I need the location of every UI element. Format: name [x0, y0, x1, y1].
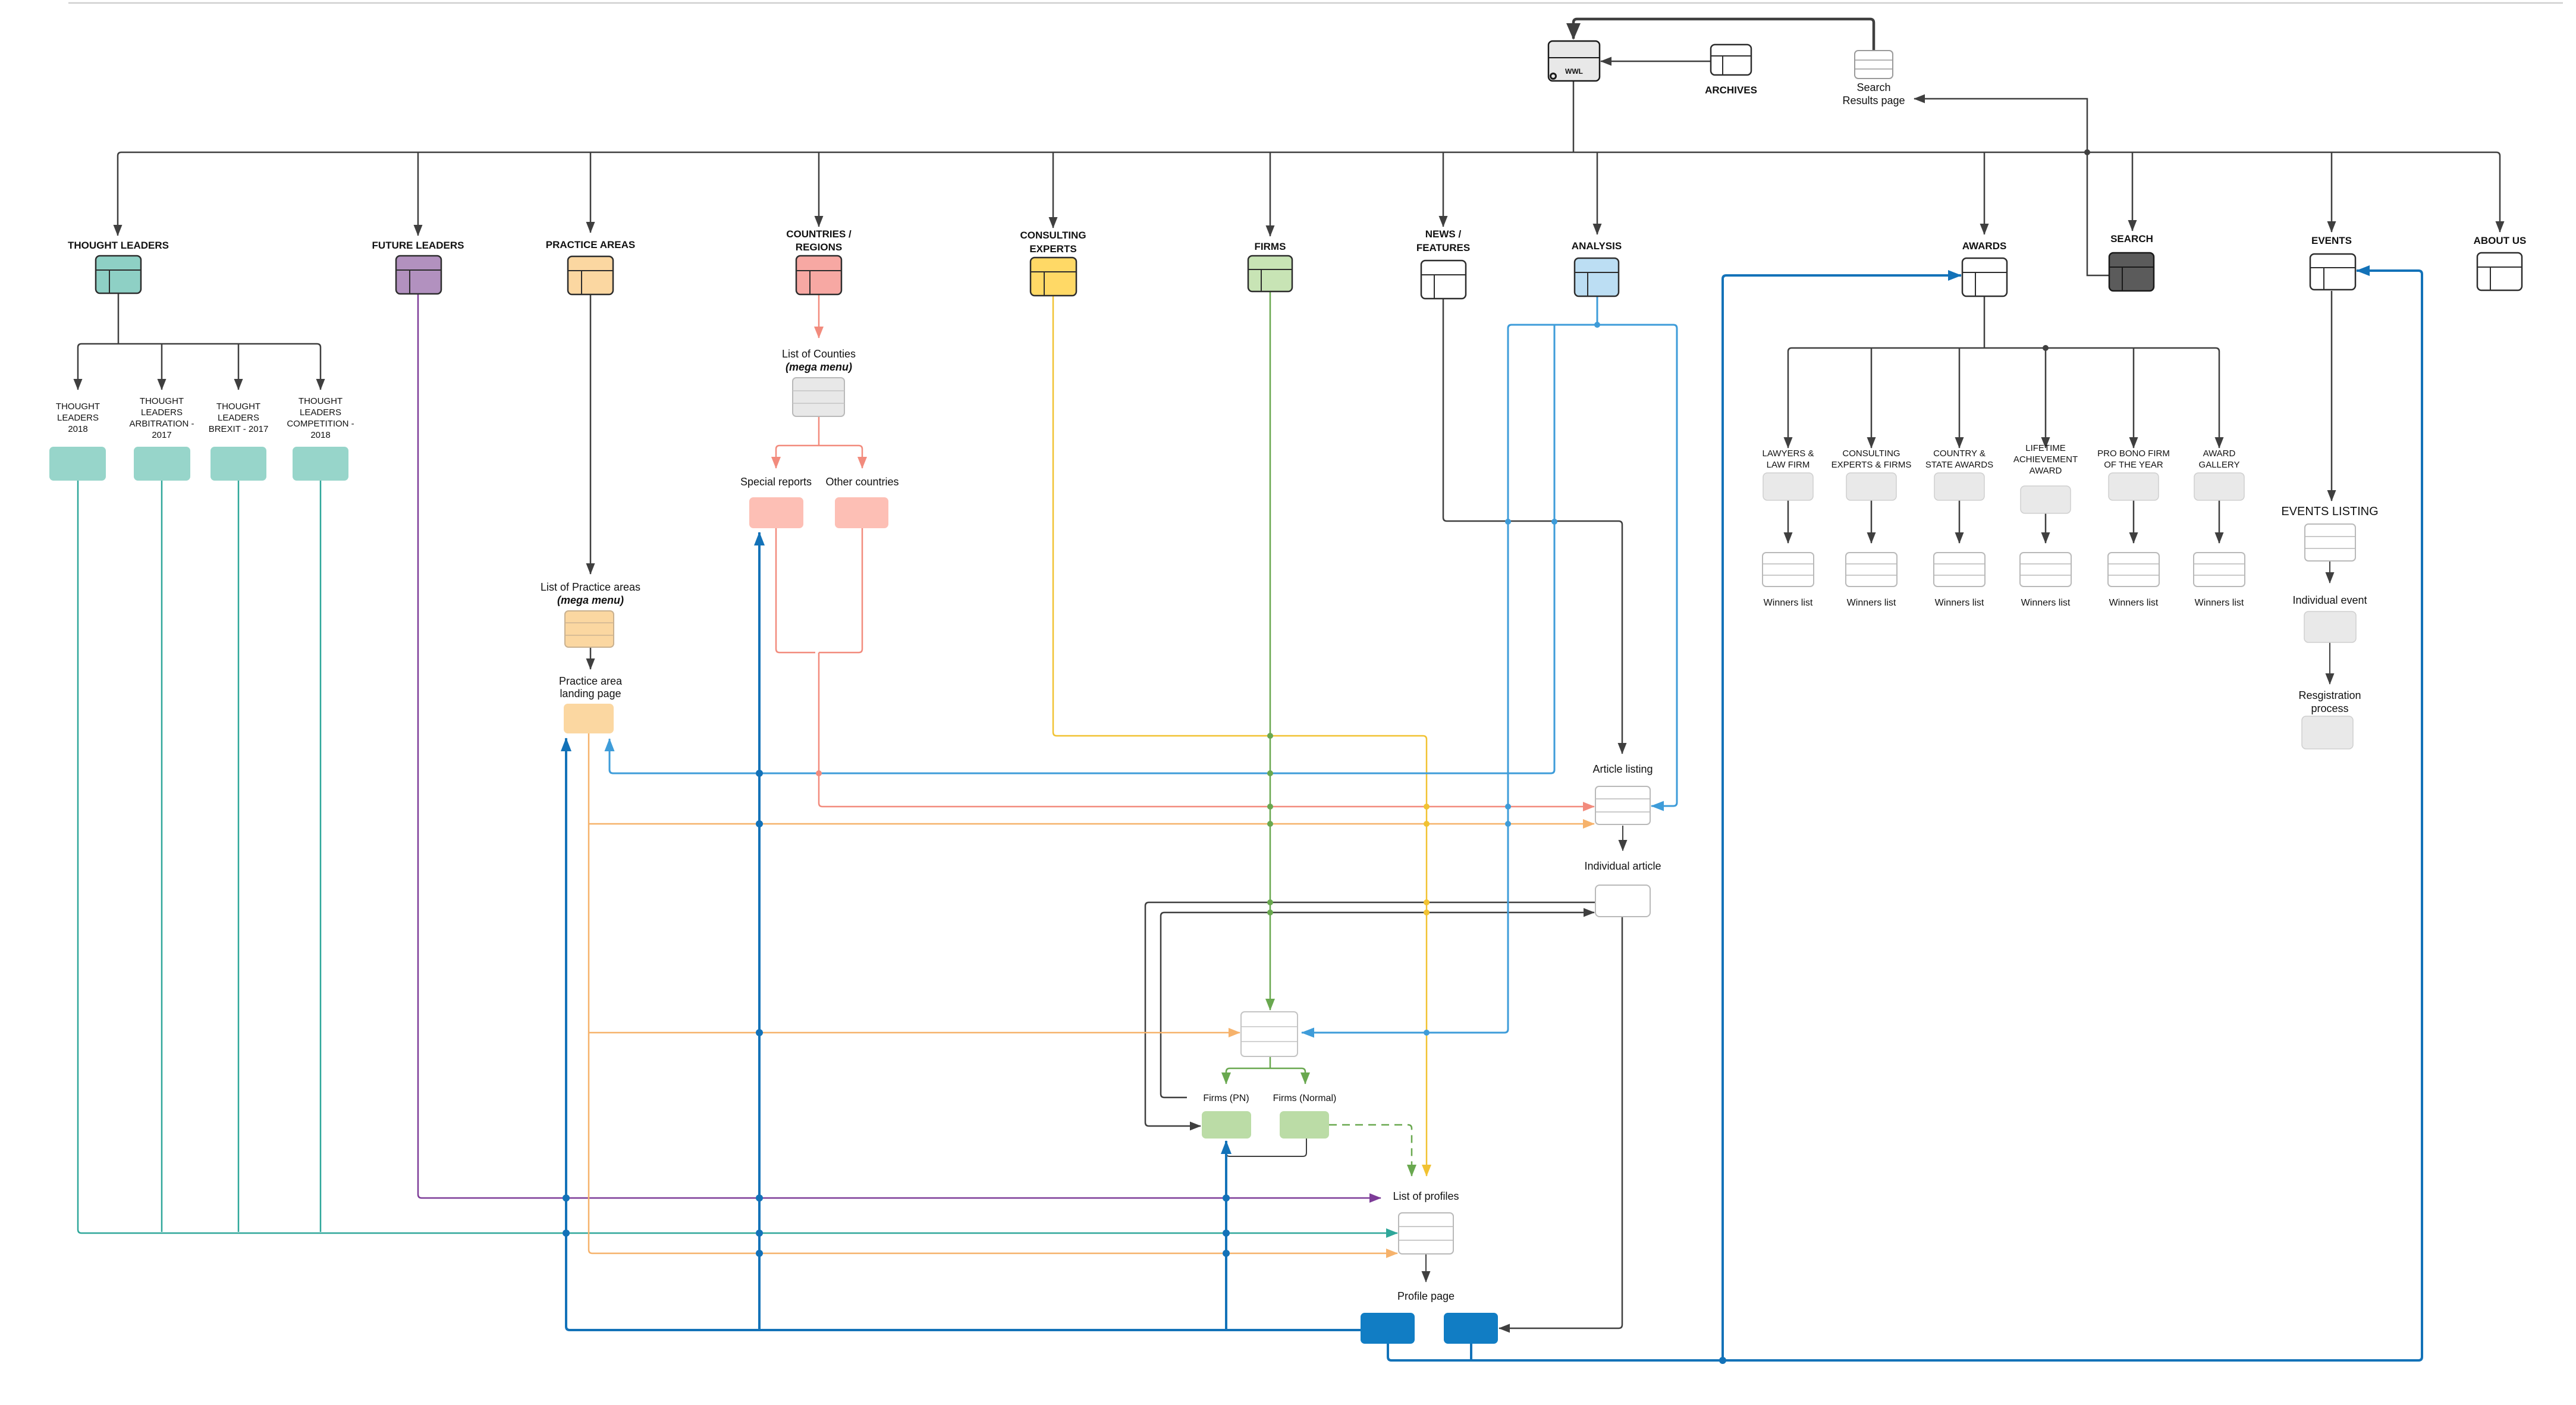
- wire winners arrow 4: [2219, 500, 2220, 543]
- svg-text:EXPERTS & FIRMS: EXPERTS & FIRMS: [1832, 460, 1912, 470]
- node registration box: [2302, 716, 2353, 749]
- wire TL drop 2018: [78, 344, 81, 390]
- wire arrow ANALYSIS: [1597, 152, 1598, 234]
- svg-text:WWL: WWL: [1565, 67, 1583, 76]
- wire trunk corner left + arrow THOUGHT LEADERS: [118, 152, 121, 236]
- node ARCHIVES box: [1711, 45, 1751, 75]
- node award grey box 3: [2109, 473, 2159, 500]
- svg-text:EVENTS LISTING: EVENTS LISTING: [2281, 505, 2378, 518]
- svg-text:EVENTS: EVENTS: [2311, 235, 2352, 246]
- wire winners arrow 0: [1788, 500, 1789, 543]
- svg-text:2018: 2018: [68, 424, 87, 434]
- junction dot purple x dblue3: [563, 1194, 570, 1202]
- node firms normal box: [1280, 1111, 1329, 1139]
- svg-text:2017: 2017: [152, 430, 171, 440]
- wire orange branch article listing: [589, 823, 1594, 825]
- svg-text:Winners list: Winners list: [1935, 598, 1984, 608]
- svg-text:LAWYERS &: LAWYERS &: [1763, 449, 1814, 459]
- svg-text:COUNTRIES /: COUNTRIES /: [786, 228, 852, 240]
- wire winners arrow 2: [1959, 500, 1961, 543]
- node other countries box: [835, 497, 888, 528]
- svg-text:List of profiles: List of profiles: [1393, 1190, 1459, 1202]
- svg-text:Article listing: Article listing: [1592, 763, 1653, 775]
- node award grey box 0: [1763, 473, 1813, 500]
- svg-text:FIRMS: FIRMS: [1255, 241, 1286, 252]
- node lifetime award grey box: [2021, 486, 2071, 513]
- node winners list box 2: [1934, 553, 1985, 587]
- wire TL drop competition: [317, 344, 321, 390]
- svg-text:Other countries: Other countries: [825, 476, 899, 488]
- svg-text:THOUGHT: THOUGHT: [216, 402, 260, 412]
- wire arrow EVENTS: [2331, 152, 2333, 232]
- junction dot teal x dblue2: [756, 1230, 763, 1237]
- node AWARDS box: [1962, 258, 2007, 296]
- node award grey box 4: [2194, 473, 2244, 500]
- wire arrow PRACTICE AREAS: [590, 152, 592, 233]
- wire practice areas to mega menu: [590, 294, 592, 574]
- svg-text:(mega menu): (mega menu): [786, 361, 852, 373]
- junction dot lblue x green: [1267, 770, 1273, 776]
- junction dot purple x dblue: [1223, 1194, 1230, 1202]
- wire awards drop lawyers: [1788, 348, 1792, 448]
- wire yellow consulting: [1053, 295, 1427, 1176]
- svg-text:landing page: landing page: [560, 688, 621, 700]
- node practice landing box: [564, 704, 614, 733]
- wire SEARCH to search-results: [1914, 99, 2109, 275]
- svg-text:LEADERS: LEADERS: [218, 413, 259, 423]
- svg-text:LIFETIME: LIFETIME: [2025, 443, 2066, 453]
- svg-text:Winners list: Winners list: [2195, 598, 2244, 608]
- wire salmon to article listing: [819, 653, 1594, 807]
- svg-text:Practice area: Practice area: [559, 675, 623, 687]
- wire dblue profile right stem: [1470, 1344, 1472, 1360]
- svg-text:FUTURE LEADERS: FUTURE LEADERS: [372, 240, 464, 251]
- wire dblue branch to AWARDS: [1723, 275, 1961, 1360]
- node practice mega menu box: [565, 611, 614, 647]
- svg-text:List of Practice areas: List of Practice areas: [541, 581, 640, 593]
- junction dot black1534 x yellow: [1424, 910, 1430, 915]
- wire arrow CONSULTING EXPERTS: [1053, 152, 1054, 228]
- svg-text:CONSULTING: CONSULTING: [1020, 230, 1086, 241]
- junction dot orange x yellow: [1424, 821, 1430, 827]
- svg-text:BREXIT - 2017: BREXIT - 2017: [209, 424, 269, 434]
- wire lblue drop to practice landing: [610, 325, 1554, 773]
- wire teal competition: [320, 481, 322, 1232]
- wire awards drop gallery: [2216, 348, 2219, 448]
- wire green drop firms PN: [1226, 1068, 1230, 1084]
- node TL competition box: [293, 447, 348, 481]
- wire article listing to individual article: [1622, 826, 1623, 851]
- svg-text:COUNTRY &: COUNTRY &: [1933, 449, 1986, 459]
- node TL brexit box: [211, 447, 266, 481]
- svg-text:THOUGHT: THOUGHT: [140, 396, 184, 406]
- svg-text:FEATURES: FEATURES: [1416, 242, 1470, 253]
- wire green dashed firms normal to list of profiles: [1329, 1125, 1412, 1176]
- node NEWS box: [1421, 261, 1466, 299]
- svg-text:AWARDS: AWARDS: [1962, 240, 2007, 252]
- node ANALYSIS box: [1575, 258, 1619, 296]
- wire arrow FUTURE LEADERS: [417, 152, 419, 236]
- wire TL drop arbitration: [161, 344, 163, 390]
- svg-text:CONSULTING: CONSULTING: [1842, 449, 1900, 459]
- junction dot dblue awards branch: [1719, 1357, 1726, 1364]
- wire arrow AWARDS: [1984, 152, 1986, 234]
- wire EVENTS stem to events listing: [2331, 291, 2333, 501]
- svg-text:List of Counties: List of Counties: [782, 348, 856, 360]
- wire TL drop brexit: [238, 344, 240, 390]
- node profile page left box: [1361, 1313, 1415, 1344]
- node TL arbitration box: [134, 447, 190, 481]
- wire lblue drop to article listing: [1651, 325, 1677, 806]
- junction dot lblue1300 x salmon: [816, 770, 822, 776]
- junction dot orange x green: [1267, 821, 1273, 827]
- wire salmon drop other: [859, 446, 862, 468]
- svg-text:LEADERS: LEADERS: [57, 413, 99, 423]
- junction dot orange x lblue: [1505, 821, 1511, 827]
- wire teal brexit: [238, 481, 240, 1232]
- node COUNTRIES box: [796, 256, 841, 294]
- svg-text:ANALYSIS: ANALYSIS: [1572, 240, 1622, 252]
- node winners list box 1: [1846, 553, 1897, 587]
- svg-text:Firms (Normal): Firms (Normal): [1273, 1093, 1337, 1103]
- svg-text:Winners list: Winners list: [1847, 598, 1896, 608]
- svg-text:Results page: Results page: [1842, 95, 1905, 106]
- svg-text:PRO BONO FIRM: PRO BONO FIRM: [2097, 449, 2170, 459]
- svg-text:EXPERTS: EXPERTS: [1029, 243, 1076, 255]
- node profile page right box: [1444, 1313, 1498, 1344]
- junction dot analysis tee: [1594, 322, 1600, 328]
- junction dot orange1736 x dblue: [756, 1029, 763, 1036]
- node FIRMS box: [1248, 256, 1292, 291]
- junction dot yellow x green: [1267, 733, 1273, 739]
- node ABOUT US box: [2477, 253, 2522, 290]
- junction dot trunk x search line: [2084, 149, 2090, 155]
- svg-text:Individual event: Individual event: [2292, 594, 2367, 606]
- wire events listing to individual event: [2329, 561, 2330, 583]
- svg-text:Winners list: Winners list: [2021, 598, 2071, 608]
- node winners list box 5: [2194, 553, 2245, 587]
- node special reports box: [749, 497, 803, 528]
- node PRACTICE AREAS box: [568, 256, 613, 294]
- wire awards drop consulting: [1871, 348, 1873, 448]
- svg-text:LAW FIRM: LAW FIRM: [1767, 460, 1810, 470]
- node WWL box: [1548, 41, 1600, 81]
- wire orange practice main: [589, 733, 1397, 1253]
- junction dot salmon x yellow: [1424, 804, 1430, 810]
- node TL 2018 box: [49, 447, 106, 481]
- wire dblue loop to EVENTS: [1391, 271, 2422, 1360]
- wire teal arbitration: [161, 481, 163, 1232]
- wire green split stem: [1270, 1056, 1271, 1068]
- svg-text:(mega menu): (mega menu): [557, 594, 624, 606]
- svg-text:THOUGHT: THOUGHT: [299, 396, 343, 406]
- node winners list box 0: [1763, 553, 1814, 587]
- page top rule: [68, 2, 2563, 4]
- wire trunk corner right + arrow ABOUT US: [2496, 152, 2500, 232]
- svg-text:2018: 2018: [310, 430, 330, 440]
- wire lblue drop to firm list: [1302, 325, 1512, 1033]
- wire arrow NEWS FEATURES: [1443, 152, 1444, 227]
- wire dblue left horizontal: [566, 738, 1361, 1330]
- svg-text:PRACTICE AREAS: PRACTICE AREAS: [546, 239, 636, 250]
- node individual article box: [1595, 885, 1650, 917]
- node winners list box 3: [2020, 553, 2071, 587]
- node events listing box: [2305, 524, 2355, 561]
- wire ARCHIVES to WWL: [1601, 61, 1711, 62]
- svg-text:OF THE YEAR: OF THE YEAR: [2104, 460, 2163, 470]
- svg-text:THOUGHT LEADERS: THOUGHT LEADERS: [68, 240, 169, 251]
- wire individual event to registration: [2329, 642, 2330, 684]
- svg-text:NEWS /: NEWS /: [1425, 228, 1462, 240]
- svg-text:LEADERS: LEADERS: [300, 407, 341, 418]
- wire salmon merge right: [819, 528, 862, 653]
- node THOUGHT LEADERS box: [96, 256, 141, 293]
- wire winners arrow lifetime: [2045, 513, 2047, 543]
- svg-text:COMPETITION -: COMPETITION -: [287, 419, 354, 429]
- wire salmon merge left: [776, 528, 815, 653]
- wire teal TL2018 to list of profiles: [78, 481, 1397, 1233]
- svg-text:AWARD: AWARD: [2203, 449, 2236, 459]
- svg-text:ARBITRATION -: ARBITRATION -: [130, 419, 194, 429]
- junction dot black1517 x green: [1267, 899, 1273, 905]
- wire awards bar: [1792, 347, 2216, 349]
- wire list of profiles to profile page: [1425, 1254, 1427, 1282]
- wire arrow SEARCH: [2132, 152, 2134, 231]
- wire dblue to firms PN: [1225, 1141, 1227, 1330]
- junction dot awards bar: [2043, 345, 2049, 351]
- node SEARCH box: [2109, 253, 2154, 291]
- svg-text:THOUGHT: THOUGHT: [56, 402, 100, 412]
- svg-text:process: process: [2311, 702, 2348, 714]
- node individual event box: [2304, 611, 2356, 642]
- node countries mega menu box: [793, 378, 844, 416]
- wire main trunk: [121, 152, 2496, 153]
- svg-text:Special reports: Special reports: [740, 476, 812, 488]
- svg-text:ACHIEVEMENT: ACHIEVEMENT: [2013, 454, 2078, 465]
- svg-text:ARCHIVES: ARCHIVES: [1705, 84, 1757, 96]
- wire purple future leaders to list of profiles: [418, 294, 1381, 1198]
- wire WWL stem to trunk: [1573, 81, 1575, 152]
- wire search-results to WWL thick loop: [1573, 19, 1874, 51]
- wire TL stem: [118, 293, 120, 344]
- node article listing box: [1595, 786, 1650, 824]
- wire awards drop lifetime: [2045, 348, 2047, 448]
- wire individual article to profile page: [1499, 917, 1622, 1328]
- junction dot teal x dblue: [1223, 1230, 1230, 1237]
- svg-text:Firms (PN): Firms (PN): [1203, 1093, 1249, 1103]
- svg-text:Profile page: Profile page: [1397, 1290, 1455, 1302]
- junction dot lblue1300 x dblue: [756, 770, 763, 777]
- wire green drop firms normal: [1302, 1068, 1305, 1084]
- node firm listing box: [1241, 1012, 1298, 1056]
- svg-text:GALLERY: GALLERY: [2199, 460, 2240, 470]
- wire TL bar: [81, 343, 317, 345]
- wire salmon bar: [780, 445, 859, 447]
- wire firms PN to individual article: [1161, 912, 1594, 1097]
- wire lblue bar: [1512, 324, 1673, 326]
- svg-text:STATE AWARDS: STATE AWARDS: [1925, 460, 1993, 470]
- wire individual article to firms PN: [1145, 902, 1595, 1126]
- wire NEWS to article listing: [1443, 299, 1622, 754]
- node firms PN box: [1202, 1111, 1251, 1139]
- junction dot news x lblue1: [1505, 519, 1511, 525]
- svg-text:ABOUT US: ABOUT US: [2474, 235, 2527, 246]
- svg-text:Winners list: Winners list: [2109, 598, 2159, 608]
- node award grey box 2: [1934, 473, 1984, 500]
- wire green split bar: [1230, 1068, 1302, 1070]
- svg-text:LEADERS: LEADERS: [141, 407, 183, 418]
- wire practice mega to landing page: [590, 647, 592, 669]
- wire awards drop country: [1959, 348, 1961, 448]
- node list of profiles box: [1399, 1213, 1453, 1254]
- junction dot news x lblue2: [1551, 519, 1557, 525]
- junction dot orange x dblue2: [756, 1250, 763, 1257]
- junction dot purple x dblue2: [756, 1194, 763, 1202]
- node winners list box 4: [2108, 553, 2159, 587]
- node CONSULTING box: [1031, 258, 1076, 296]
- wire salmon drop special: [776, 446, 780, 468]
- wire firms U link: [1226, 1139, 1306, 1156]
- svg-text:Resgistration: Resgistration: [2298, 689, 2361, 701]
- wire salmon countries to mega menu: [818, 294, 820, 338]
- svg-text:AWARD: AWARD: [2030, 466, 2062, 476]
- wire salmon mega stem: [818, 416, 820, 446]
- svg-text:Search: Search: [1856, 81, 1890, 93]
- node award grey box 1: [1846, 473, 1896, 500]
- junction dot black1517 x yellow: [1424, 899, 1430, 905]
- junction dot salmon x green: [1267, 804, 1273, 810]
- wire orange branch firm list: [589, 1032, 1240, 1034]
- junction dot orange x dblue: [1223, 1250, 1230, 1257]
- junction dot salmon x lblue: [1505, 804, 1511, 810]
- wire dblue profile left stem: [1388, 1344, 1391, 1360]
- junction dot lblue1736 x yellow: [1424, 1030, 1430, 1036]
- svg-text:SEARCH: SEARCH: [2110, 233, 2153, 244]
- junction dot orange1385 x dblue: [756, 820, 763, 827]
- junction dot teal x dblue3: [563, 1230, 570, 1237]
- wire AWARDS stem: [1984, 296, 1986, 348]
- junction dot black1534 x green: [1267, 910, 1273, 915]
- wire winners arrow 1: [1871, 500, 1873, 543]
- svg-text:Individual article: Individual article: [1584, 860, 1661, 872]
- wire dblue to special reports: [758, 532, 761, 1330]
- wire green firms to firm list: [1270, 291, 1271, 1010]
- node EVENTS box: [2310, 254, 2355, 290]
- wire winners arrow 3: [2133, 500, 2135, 543]
- wire awards drop probono: [2133, 348, 2135, 448]
- wire arrow FIRMS: [1270, 152, 1271, 236]
- svg-text:REGIONS: REGIONS: [796, 242, 842, 253]
- wire arrow COUNTRIES: [818, 152, 820, 227]
- svg-text:Winners list: Winners list: [1764, 598, 1813, 608]
- wire lblue analysis stem: [1597, 296, 1598, 325]
- node FUTURE LEADERS box: [396, 256, 441, 294]
- node search results box: [1855, 51, 1893, 79]
